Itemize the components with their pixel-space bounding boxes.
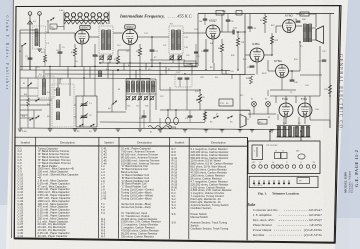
svg-text:G.E. PAGE 11-2: G.E. PAGE 11-2 [354, 150, 359, 187]
